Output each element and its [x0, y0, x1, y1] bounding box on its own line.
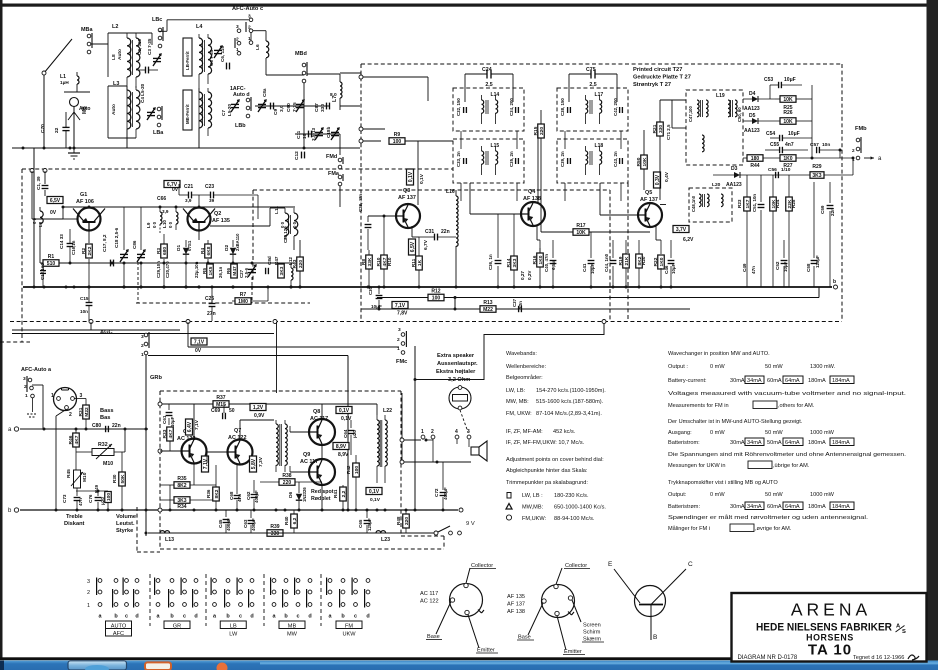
contact GRb	[144, 333, 148, 337]
svg-text:400μF: 400μF	[254, 490, 259, 503]
adjustment symbol square	[507, 493, 511, 499]
svg-text:33K: 33K	[367, 257, 373, 266]
resistor R8 33K	[366, 255, 373, 269]
contact FMc	[401, 333, 405, 337]
svg-text:FM: FM	[345, 624, 353, 630]
svg-text:10n: 10n	[822, 142, 830, 148]
svg-text:C37: C37	[512, 298, 517, 307]
voltage label 7.1V supply	[392, 302, 408, 309]
DIN socket input	[54, 388, 77, 411]
svg-text:2: 2	[69, 412, 72, 418]
svg-text:1000 mW: 1000 mW	[810, 430, 835, 436]
svg-text:10K: 10K	[576, 230, 586, 236]
resistor R25 10K	[780, 96, 796, 103]
svg-text:C54: C54	[766, 131, 775, 137]
svg-text:R50: R50	[636, 157, 642, 166]
svg-text:Screen: Screen	[583, 623, 601, 629]
svg-text:R23: R23	[737, 199, 742, 208]
svg-text:Målinger for FM i: Målinger for FM i	[668, 525, 710, 532]
svg-text:C38, 150: C38, 150	[560, 98, 565, 116]
wire GRb down	[145, 355, 147, 536]
svg-text:7,1V: 7,1V	[194, 340, 205, 346]
connector group separator	[263, 574, 265, 626]
svg-text:M47: M47	[232, 266, 238, 276]
wire rail mid y263	[40, 262, 295, 264]
transistor Q3 AF137	[396, 204, 420, 228]
svg-text:8,0: 8,0	[330, 92, 337, 98]
junction dots box A rails	[62, 206, 65, 209]
svg-text:Q9: Q9	[303, 452, 310, 458]
svg-text:7,1V: 7,1V	[395, 303, 406, 309]
svg-text:2: 2	[24, 384, 27, 390]
coil L23	[376, 531, 386, 533]
svg-text:1K: 1K	[417, 259, 423, 266]
svg-text:R20: R20	[641, 256, 646, 265]
resistor R41 2.2	[340, 487, 347, 501]
coil L4 windings	[199, 38, 203, 74]
IF transformer L15	[453, 139, 524, 183]
svg-text:R10: R10	[387, 257, 392, 266]
svg-text:R48: R48	[396, 516, 401, 525]
svg-text:L23: L23	[381, 537, 390, 543]
svg-text:R12: R12	[431, 289, 440, 295]
resistor R13 M22	[480, 306, 496, 313]
resistor R21 330	[657, 122, 664, 136]
resistor R46 4K7	[73, 433, 80, 447]
taskbar second orange icon	[217, 663, 228, 670]
svg-text:9 V: 9 V	[466, 521, 475, 527]
svg-text:FMb: FMb	[855, 126, 867, 132]
svg-text:0,1V: 0,1V	[419, 173, 425, 184]
resistor R36 8K2	[213, 487, 220, 501]
svg-text:50mA: 50mA	[767, 440, 782, 446]
resistor R34 3K3	[174, 497, 190, 504]
svg-text:1M0: 1M0	[238, 299, 248, 305]
svg-text:50: 50	[229, 408, 235, 414]
junction dots audio bus	[169, 509, 172, 512]
svg-text:LW, LB :: LW, LB :	[522, 493, 543, 499]
voltage label 6.5V Q1	[47, 197, 63, 204]
svg-text:C87: C87	[314, 103, 320, 112]
svg-text:C45: C45	[218, 519, 223, 528]
wire audio top rail	[160, 403, 213, 405]
wire L19 feed	[672, 127, 686, 129]
svg-text:Bas: Bas	[100, 415, 110, 421]
svg-text:MW: MW	[287, 632, 298, 638]
svg-text:C30: C30	[368, 286, 373, 295]
svg-text:0,1V: 0,1V	[370, 497, 381, 503]
svg-text:MBa: MBa	[81, 27, 93, 33]
resistor R3 680	[161, 244, 168, 258]
svg-text:AC 122: AC 122	[177, 436, 196, 442]
svg-text:Output:: Output:	[668, 492, 687, 498]
wire Q2 collector to L11	[210, 225, 270, 227]
svg-text:R17: R17	[576, 223, 585, 229]
connector group separator	[320, 574, 322, 626]
svg-text:C1, 39: C1, 39	[36, 176, 41, 190]
wire bus 7.8V rail	[377, 297, 819, 299]
svg-text:180mA: 180mA	[808, 504, 826, 510]
svg-text:2K2: 2K2	[87, 246, 93, 255]
voltage label 3.7V Q5	[673, 226, 689, 233]
svg-text:R30: R30	[112, 474, 117, 483]
resistor R33 4K7	[167, 427, 174, 441]
resistor R31 M22	[83, 405, 90, 419]
svg-text:R19: R19	[618, 256, 624, 265]
svg-text:0,1V: 0,1V	[369, 489, 380, 495]
svg-text:,übrige for AM.: ,übrige for AM.	[773, 463, 810, 469]
wire LBc to AFC contact	[159, 30, 167, 32]
svg-text:R39: R39	[270, 524, 279, 530]
svg-text:R2: R2	[81, 248, 87, 254]
svg-text:4K7: 4K7	[74, 435, 80, 444]
resistor R23 1K7	[744, 197, 751, 211]
svg-text:10μF: 10μF	[170, 416, 175, 427]
svg-text:154-270 kc/s.(1100-1950m).: 154-270 kc/s.(1100-1950m).	[536, 388, 606, 394]
svg-text:AC 122: AC 122	[420, 599, 439, 605]
svg-text:d: d	[366, 614, 369, 620]
wire Q1 base from edge	[31, 171, 33, 219]
svg-text:7,1V: 7,1V	[203, 458, 209, 469]
resistor R7 1M0	[235, 298, 251, 305]
svg-text:C49: C49	[742, 263, 747, 272]
svg-text:C86: C86	[132, 240, 137, 249]
resistor R20 8K2	[636, 254, 643, 268]
svg-text:R22: R22	[653, 257, 659, 266]
wire MBd feed	[266, 74, 304, 76]
svg-text:39: 39	[209, 198, 215, 203]
svg-text:0,2V: 0,2V	[527, 270, 532, 280]
svg-text:C63: C63	[243, 519, 248, 528]
svg-text:Rødplet: Rødplet	[311, 496, 331, 502]
resistor R16 1K0	[537, 253, 544, 267]
svg-text:c: c	[239, 614, 242, 620]
arrow to a	[864, 157, 874, 159]
resistor R19 21K	[623, 254, 630, 268]
page left border bar	[0, 0, 3, 660]
dashed link DIN to pins	[460, 410, 468, 432]
svg-text:26,1n: 26,1n	[218, 266, 223, 278]
svg-text:R21: R21	[652, 124, 658, 133]
wire lines above audio	[12, 333, 274, 335]
voltage label 0.3V Q5	[654, 172, 661, 188]
svg-text:1300 mW.: 1300 mW.	[810, 364, 836, 370]
coil MB windings	[199, 92, 203, 128]
svg-text:0V: 0V	[195, 348, 202, 354]
svg-text:Trimmepunkter pa skalabagrund:: Trimmepunkter pa skalabagrund:	[506, 480, 588, 486]
svg-text:C51, 10n: C51, 10n	[752, 194, 757, 212]
svg-text:6,7V: 6,7V	[423, 239, 429, 250]
svg-text:Trykknapomskifter vist i st: Trykknapomskifter vist i stilling MB og …	[668, 480, 778, 486]
svg-text:R44: R44	[750, 163, 759, 169]
wire left vertical rail	[33, 148, 35, 287]
wire audio output top	[321, 445, 323, 459]
svg-text:Wavebands:: Wavebands:	[506, 351, 537, 357]
svg-text:1K5: 1K5	[208, 266, 214, 275]
voltage label 6.7V Q2	[164, 181, 180, 188]
wire speaker left rail	[401, 393, 403, 462]
resistor R24 10K	[770, 197, 777, 211]
wire a-terminal rail	[20, 428, 148, 430]
ferrite rod box MB-Ferrit	[183, 90, 192, 130]
svg-text:0 0: 0 0	[32, 217, 37, 224]
svg-text:8K2: 8K2	[214, 489, 220, 498]
IF transformer L18	[557, 139, 628, 183]
svg-text:R35: R35	[177, 476, 186, 482]
svg-text:C44, 1n0: C44, 1n0	[604, 253, 609, 272]
svg-text:34mA: 34mA	[747, 378, 762, 384]
svg-text:Belgeområder:: Belgeområder:	[506, 374, 543, 381]
wire rail base y207	[63, 206, 295, 208]
signature squiggle	[908, 655, 919, 660]
svg-text:C5 7-35: C5 7-35	[209, 49, 214, 66]
junction FMb lines	[852, 157, 855, 160]
svg-text:3K3: 3K3	[812, 173, 821, 179]
svg-text:Extra speaker: Extra speaker	[437, 353, 475, 359]
resistor R5 1K5	[207, 264, 214, 278]
coil L13	[160, 531, 170, 533]
IF transformer L19 box	[686, 90, 743, 165]
svg-text:3: 3	[398, 327, 401, 333]
svg-text:M22: M22	[483, 307, 493, 313]
svg-text:Wavechanger in position MW an: Wavechanger in position MW and AUTO.	[668, 351, 770, 357]
svg-text:IF, ZF, MF-AM:: IF, ZF, MF-AM:	[506, 429, 543, 435]
svg-text:180mA: 180mA	[808, 378, 826, 384]
svg-text:0,1V: 0,1V	[341, 416, 352, 422]
svg-text:C8a: C8a	[262, 88, 267, 97]
wire Q4 base rail	[469, 183, 471, 214]
svg-text:R38: R38	[282, 473, 291, 479]
svg-text:10K: 10K	[642, 157, 648, 166]
svg-text:AA123: AA123	[744, 128, 760, 134]
svg-text:B: B	[653, 634, 657, 641]
wire line to FMc contact	[188, 346, 399, 348]
voltage label 6.5V Q3 emitter	[409, 239, 416, 255]
svg-text:R1: R1	[48, 254, 55, 260]
wire tone mid	[76, 490, 108, 492]
svg-text:0V: 0V	[172, 187, 179, 193]
svg-text:50 mW: 50 mW	[765, 430, 783, 436]
svg-text:30mA: 30mA	[730, 440, 745, 446]
svg-text:680: 680	[162, 247, 168, 255]
wire volume feed vertical	[347, 356, 349, 511]
transistor Q7 AC122	[228, 440, 253, 465]
svg-text:22n: 22n	[112, 423, 121, 429]
connector group LB	[213, 579, 217, 583]
svg-text:Q4: Q4	[528, 189, 535, 195]
svg-text:5,8V: 5,8V	[251, 458, 257, 469]
svg-text:d: d	[135, 614, 138, 620]
svg-text:L5-20: L5-20	[227, 104, 232, 116]
svg-text:AF 135: AF 135	[507, 594, 525, 600]
wire L2 top	[108, 32, 152, 34]
svg-text:3: 3	[87, 579, 90, 585]
svg-text:,øvrige for AM.: ,øvrige for AM.	[755, 526, 792, 532]
svg-text:MW, MB:: MW, MB:	[506, 399, 529, 405]
svg-text:Voltages measured with vacu: Voltages measured with vacuum-tube voltm…	[668, 391, 907, 397]
svg-text:6,5V: 6,5V	[50, 198, 61, 204]
junction nodes top-left	[73, 147, 76, 150]
svg-text:L15: L15	[491, 143, 500, 149]
wire top-left horizontal bus	[12, 147, 360, 149]
svg-text:87-104 Mc/s.(2,89-3,41m).: 87-104 Mc/s.(2,89-3,41m).	[536, 411, 602, 417]
dashed segment volume linkage	[136, 507, 138, 552]
resistor R22 1K0	[658, 255, 665, 269]
DIN socket extra speaker	[449, 387, 471, 409]
svg-text:510: 510	[47, 261, 56, 267]
svg-text:6,2V: 6,2V	[683, 237, 694, 243]
svg-text:100: 100	[432, 296, 441, 302]
dashed enclosure AM front-end board	[22, 168, 453, 170]
transistor Q1 AF106	[78, 208, 101, 231]
svg-text:C64: C64	[343, 429, 348, 438]
svg-text:M22: M22	[84, 407, 90, 417]
wire speaker feed	[402, 439, 421, 441]
adjustment symbol triangle	[506, 504, 512, 510]
svg-text:2,5: 2,5	[485, 82, 492, 88]
svg-text:1000 mW: 1000 mW	[810, 492, 835, 498]
svg-text:LB-Ferrit: LB-Ferrit	[185, 51, 190, 70]
svg-text:1: 1	[421, 429, 424, 435]
resistor R10 4K7	[381, 255, 388, 269]
page top border line	[0, 4, 927, 7]
svg-text:Die Spannungen sind mit Rö: Die Spannungen sind mit Röhrenvoltmeter …	[668, 452, 907, 458]
svg-text:R24: R24	[775, 199, 780, 208]
svg-text:Wellenbereiche:: Wellenbereiche:	[506, 364, 546, 370]
svg-text:c: c	[183, 614, 186, 620]
taskbar pressed window button	[68, 661, 127, 670]
svg-text:AFC: AFC	[113, 631, 124, 637]
svg-text:Auto d: Auto d	[233, 92, 250, 98]
svg-text:1: 1	[141, 352, 144, 358]
adjustment symbol circle	[506, 515, 511, 520]
connector group AUTO	[98, 579, 102, 583]
switch S1 antenna	[44, 39, 72, 73]
svg-text:Auto: Auto	[111, 104, 117, 115]
junction dots IF bus	[367, 286, 370, 289]
svg-text:7,8V: 7,8V	[397, 311, 408, 317]
svg-text:R36: R36	[206, 489, 211, 498]
svg-text:220: 220	[283, 480, 292, 486]
svg-text:LBb: LBb	[235, 123, 246, 129]
resistor R43 220	[297, 257, 304, 271]
wire main ground bus	[23, 286, 832, 288]
svg-text:10μF: 10μF	[784, 77, 796, 83]
junction dots input	[85, 428, 88, 431]
connector group GR	[156, 579, 160, 583]
svg-text:R9: R9	[394, 132, 401, 138]
svg-text:L22: L22	[383, 408, 392, 414]
svg-text:AF 106: AF 106	[76, 199, 94, 205]
svg-text:220: 220	[404, 517, 410, 525]
svg-text:d: d	[194, 614, 197, 620]
wire horizontals into T27	[363, 76, 428, 78]
svg-text:50 mW: 50 mW	[765, 364, 783, 370]
svg-text:D6: D6	[288, 492, 294, 498]
svg-text:FMc: FMc	[396, 359, 407, 365]
svg-text:30mA: 30mA	[730, 378, 745, 384]
capacitor C15 10n	[86, 302, 93, 304]
svg-text:1/10: 1/10	[781, 167, 791, 173]
svg-text:22n: 22n	[441, 229, 450, 235]
svg-text:3,9: 3,9	[162, 209, 169, 214]
svg-text:Q5: Q5	[645, 190, 652, 196]
svg-text:Battery-current:: Battery-current:	[668, 378, 707, 384]
transistor Q2 AF135	[188, 208, 211, 231]
resistor R15 220	[538, 124, 545, 138]
contact LBa	[157, 107, 161, 111]
svg-text:3: 3	[141, 334, 144, 340]
svg-text:AC 117: AC 117	[420, 591, 438, 597]
dashed enclosure inner AM IF board	[253, 189, 610, 191]
svg-text:330: 330	[271, 531, 280, 537]
svg-text:6,5V: 6,5V	[410, 241, 416, 252]
board edge connection nodes	[89, 320, 93, 324]
svg-text:34mA: 34mA	[747, 440, 762, 446]
svg-text:0V: 0V	[50, 210, 57, 216]
svg-text:R5: R5	[202, 268, 208, 274]
svg-text:47n: 47n	[751, 266, 756, 274]
svg-text:C57: C57	[810, 142, 819, 148]
svg-text:3: 3	[23, 376, 26, 382]
svg-text:C14 33: C14 33	[59, 234, 64, 249]
svg-text:2,2: 2,2	[341, 490, 347, 497]
svg-text:C66: C66	[157, 196, 166, 202]
resistor R48 220	[403, 514, 410, 528]
svg-text:C90: C90	[286, 103, 292, 112]
svg-text:C53: C53	[764, 77, 773, 83]
svg-text:C9: C9	[273, 109, 279, 115]
svg-text:C59: C59	[820, 205, 825, 214]
svg-text:LBc: LBc	[152, 17, 162, 23]
svg-text:C18 2,5-6: C18 2,5-6	[114, 227, 119, 248]
svg-text:MB: MB	[82, 106, 88, 114]
wire output to speaker	[415, 322, 604, 380]
svg-text:R45: R45	[66, 469, 72, 478]
wire L7 to T27	[307, 73, 340, 75]
svg-text:R29: R29	[812, 164, 821, 170]
svg-text:LW: LW	[229, 632, 238, 638]
antenna Auto MB	[70, 98, 79, 107]
svg-text:47n: 47n	[78, 498, 83, 506]
svg-text:LBa: LBa	[153, 130, 164, 136]
wire IFT drops to bus	[460, 131, 462, 149]
svg-text:3K3: 3K3	[279, 266, 285, 275]
connector group MB	[272, 579, 276, 583]
svg-text:27n: 27n	[207, 311, 216, 317]
svg-text:AF 135: AF 135	[212, 218, 230, 224]
svg-text:220: 220	[539, 127, 545, 135]
svg-text:L9: L9	[146, 222, 151, 228]
svg-text:C20,470: C20,470	[165, 261, 170, 278]
svg-text:C4 L5-20: C4 L5-20	[140, 83, 145, 103]
resistor R27 1K0	[780, 155, 796, 162]
IF transformer L20 box	[689, 188, 732, 222]
svg-text:R3: R3	[156, 248, 162, 254]
transistor Q6 AC122	[182, 439, 207, 464]
svg-text:Leutst.: Leutst.	[116, 521, 135, 527]
svg-text:0 mW: 0 mW	[710, 492, 725, 498]
svg-text:L19: L19	[716, 93, 725, 99]
svg-text:7,3V: 7,3V	[258, 456, 264, 467]
svg-text:GR: GR	[173, 624, 181, 630]
svg-text:C52: C52	[775, 261, 780, 270]
transistor Q4 AF138	[521, 202, 545, 226]
svg-text:3: 3	[467, 429, 470, 435]
svg-text:b: b	[833, 279, 836, 285]
title block frame	[732, 593, 927, 662]
svg-text:10μF: 10μF	[788, 131, 800, 137]
